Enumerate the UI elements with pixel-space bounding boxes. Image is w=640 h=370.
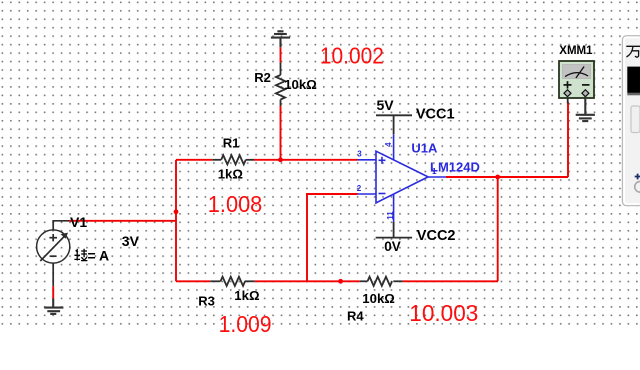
- multimeter XMM1: [559, 61, 594, 98]
- node junction dot D: [495, 175, 500, 180]
- resistor R4: [360, 277, 403, 286]
- resistor R1: [212, 155, 254, 164]
- side panel: [622, 36, 640, 206]
- node junction dot B: [174, 209, 179, 214]
- svg-text:LM124D: LM124D: [430, 159, 480, 174]
- svg-text:R4: R4: [347, 309, 364, 324]
- wire left vertical: [175, 160, 177, 281]
- wire V1 bottom red segment: [52, 286, 54, 298]
- power VCC1 bar: [376, 115, 412, 134]
- glyph wan (10000): [626, 46, 640, 57]
- wire R2 top red segment: [280, 47, 282, 62]
- svg-text:R1: R1: [223, 136, 240, 151]
- node junction dot C: [338, 279, 343, 284]
- svg-text:= A: = A: [88, 248, 110, 264]
- wire feedback vertical: [307, 194, 358, 281]
- source V1: [37, 221, 70, 286]
- wire R1 right to op-amp + input: [254, 159, 358, 161]
- svg-text:0V: 0V: [384, 239, 401, 254]
- ground G3 below XMM1: [576, 96, 595, 121]
- glyph jian (key): [74, 249, 87, 261]
- op-amp U1 triangle: [358, 134, 446, 222]
- ground G2 below V1: [44, 299, 63, 314]
- ground G1 above R2: [271, 31, 290, 47]
- svg-text:1kΩ: 1kΩ: [218, 166, 244, 181]
- svg-text:2: 2: [357, 184, 362, 193]
- wire R1 left: [176, 159, 212, 161]
- power VCC2 bar: [376, 222, 412, 238]
- node junction dot A: [278, 157, 283, 162]
- wire bottom right segment: [403, 280, 498, 282]
- svg-text:1.009: 1.009: [219, 311, 272, 337]
- wire bottom left segment: [176, 280, 210, 282]
- wire output right vertical: [497, 177, 499, 281]
- svg-text:V1: V1: [70, 214, 87, 230]
- svg-text:10.003: 10.003: [409, 300, 478, 326]
- wire bottom middle segment: [255, 280, 360, 282]
- svg-text:VCC2: VCC2: [417, 228, 456, 244]
- svg-text:VCC1: VCC1: [416, 106, 455, 122]
- svg-text:10kΩ: 10kΩ: [284, 77, 317, 92]
- wire net V1 top to node: [69, 220, 176, 222]
- wire to XMM1: [567, 103, 569, 177]
- svg-text:10.002: 10.002: [320, 43, 384, 69]
- svg-text:XMM1: XMM1: [559, 45, 593, 57]
- resistor R3: [210, 277, 255, 286]
- svg-text:1.008: 1.008: [208, 191, 262, 217]
- svg-text:3: 3: [357, 149, 362, 158]
- svg-text:4: 4: [384, 142, 393, 147]
- svg-text:10kΩ: 10kΩ: [362, 291, 395, 306]
- resistor R2: [276, 63, 285, 106]
- svg-text:1kΩ: 1kΩ: [234, 288, 260, 303]
- svg-text:U1A: U1A: [411, 140, 438, 155]
- wire R2 bottom to node A: [280, 106, 282, 160]
- svg-text:R3: R3: [198, 294, 215, 309]
- wire output horizontal: [446, 176, 568, 178]
- svg-text:R2: R2: [254, 70, 271, 85]
- svg-text:5V: 5V: [377, 97, 395, 113]
- svg-text:11: 11: [386, 211, 395, 220]
- svg-text:3V: 3V: [122, 233, 140, 249]
